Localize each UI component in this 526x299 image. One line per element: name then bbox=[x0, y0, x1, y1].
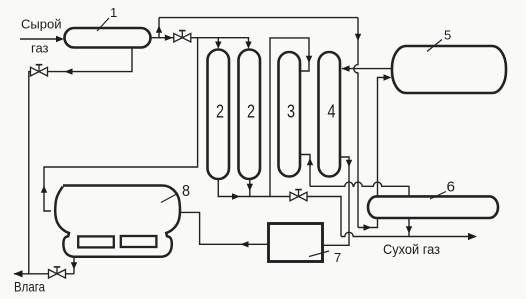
wire: riser to top header bbox=[158, 18, 160, 38]
arrow down from vessel 6 bbox=[406, 226, 412, 233]
arrow left on condensate line bbox=[65, 68, 73, 74]
arrow into vessel 1 bbox=[56, 36, 64, 42]
svg-text:5: 5 bbox=[444, 28, 451, 43]
wire: main gas line from vessel 1 to columns bbox=[151, 38, 249, 43]
column 2b (adsorber) bbox=[239, 50, 261, 180]
label 1 with leader bbox=[97, 5, 117, 31]
arrow right into vessel 5 bbox=[384, 74, 392, 80]
svg-text:6: 6 bbox=[447, 179, 456, 196]
furnace 7 (heater box) bbox=[269, 224, 323, 262]
arrow right on bottoms header bbox=[232, 193, 240, 199]
wire: column 2a bottom to bottoms header bbox=[218, 179, 290, 197]
wire: branch into column 2a bbox=[217, 38, 219, 43]
svg-text:газ: газ bbox=[31, 41, 49, 56]
column 2a (adsorber) bbox=[208, 50, 230, 180]
arrow left moisture outlet bbox=[14, 270, 23, 277]
wire: column 3 lower side nozzle bbox=[300, 155, 311, 187]
svg-text:8: 8 bbox=[182, 183, 190, 200]
vessel 5 (horizontal drum) bbox=[392, 46, 506, 93]
label 7 with leader bbox=[309, 250, 341, 265]
arrow up on vessel 8 riser bbox=[41, 186, 47, 193]
arrow right dry gas outlet bbox=[468, 233, 477, 240]
arrow down into column 2b bbox=[245, 42, 251, 49]
vessel 6 (horizontal exchanger drum) bbox=[368, 196, 498, 218]
arrow before valve V1 bbox=[165, 35, 173, 41]
arrow up on riser bbox=[156, 26, 162, 33]
wire: vessel 5 to column 4 top bbox=[342, 68, 392, 70]
wire: vessel 8 vapor return to main line bbox=[44, 38, 198, 211]
wire: valve V2 to dry gas header bbox=[307, 197, 341, 237]
label 8 with leader bbox=[161, 183, 190, 203]
label 5 with leader bbox=[427, 28, 451, 52]
label: Сырой газ (raw gas inlet) bbox=[21, 17, 61, 56]
wire: riser vessel 6 top to vessel 5 bbox=[378, 78, 385, 197]
wire: column 4 lower nozzle to furnace 7 bbox=[323, 157, 350, 245]
column 3 (adsorber) bbox=[279, 52, 301, 177]
valve V4 on moisture line bbox=[49, 267, 66, 278]
wire: purge line y186 (hops over x349, x358, x377.5) into vessel 6 top bbox=[310, 182, 409, 196]
valve V3 on condensate line bbox=[31, 65, 48, 76]
svg-text:Сухой газ: Сухой газ bbox=[383, 241, 440, 257]
arrow left into column 4 bbox=[342, 65, 350, 71]
arrow down on inner loop bbox=[306, 56, 312, 63]
wire: column 2b bottom drop bbox=[249, 179, 251, 197]
arrow down on column 2b drop bbox=[247, 184, 253, 191]
wire: vessel 8 bottom drain bbox=[73, 258, 75, 274]
vessel 8 (regeneration still with base) bbox=[55, 186, 180, 257]
svg-text:7: 7 bbox=[334, 250, 341, 265]
arrow down on drain bbox=[71, 262, 77, 269]
wire: inner purge loop to column 3 top nozzle bbox=[270, 38, 309, 197]
column 4 (adsorber) bbox=[319, 52, 341, 177]
arrow down on furnace feed bbox=[346, 160, 352, 167]
wire: moisture outlet line bbox=[14, 273, 74, 275]
svg-text:2: 2 bbox=[216, 102, 224, 122]
wire: dry gas header (hop over x349) bbox=[341, 232, 470, 236]
svg-text:Сырой: Сырой bbox=[21, 17, 61, 32]
tube rectangle left inside vessel 8 base bbox=[78, 236, 114, 247]
svg-text:3: 3 bbox=[287, 102, 295, 122]
arrow left into vessel 8 bbox=[241, 241, 249, 247]
arrow right on transfer line bbox=[364, 224, 372, 230]
wire: vessel 6 bottom to dry gas header bbox=[408, 218, 410, 237]
wire: raw gas inlet line bbox=[20, 38, 57, 40]
svg-text:2: 2 bbox=[247, 102, 255, 122]
tube rectangle right inside vessel 8 base bbox=[121, 236, 157, 247]
valve V2 on bottoms header bbox=[290, 190, 307, 201]
arrow up into column 3 lower nozzle bbox=[307, 158, 313, 165]
svg-text:4: 4 bbox=[328, 102, 336, 122]
arrow down on downcomer bbox=[355, 34, 361, 41]
valve V1 on main gas line bbox=[174, 31, 191, 42]
svg-text:Влага: Влага bbox=[14, 280, 45, 295]
wire: transfer line to vessel 6 bottom bbox=[358, 217, 378, 228]
wire: vessel 1 condensate line bbox=[29, 48, 132, 274]
wire: top header line bbox=[159, 17, 358, 19]
svg-text:1: 1 bbox=[110, 5, 117, 20]
wire: regeneration downcomer x358 (hops over y68.6 line) bbox=[354, 18, 358, 228]
label 6 with leader bbox=[430, 179, 455, 200]
arrow down into column 2a bbox=[215, 42, 221, 49]
vessel 1 (inlet separator) bbox=[65, 28, 151, 48]
wire: furnace 7 to vessel 8 bbox=[180, 212, 269, 244]
